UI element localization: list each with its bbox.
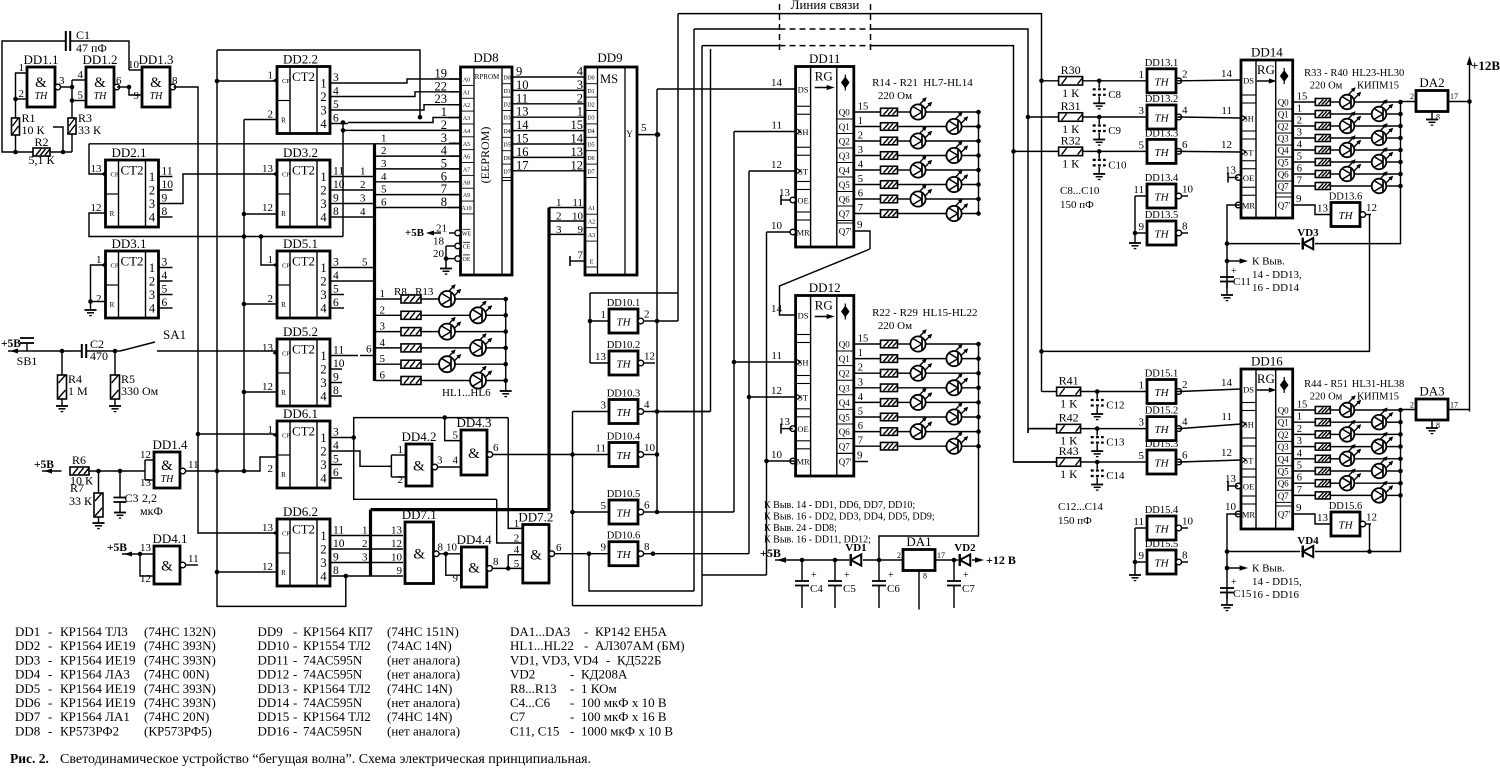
svg-text:(74НС 151N): (74НС 151N) <box>387 624 459 639</box>
wire <box>1293 433 1316 435</box>
svg-text:R: R <box>281 471 286 479</box>
svg-text:13: 13 <box>262 522 274 534</box>
wire <box>898 184 947 186</box>
svg-text:DD15.1: DD15.1 <box>1145 369 1179 380</box>
svg-text:TH: TH <box>616 359 631 371</box>
wire <box>693 29 695 591</box>
wire <box>1228 485 1238 487</box>
svg-text:Светодинамическое устройство “: Светодинамическое устройство “бегущая во… <box>60 752 591 767</box>
svg-text:2: 2 <box>362 538 368 550</box>
svg-text:14: 14 <box>1221 68 1233 80</box>
svg-text:TH: TH <box>161 474 175 485</box>
wire <box>589 554 694 591</box>
svg-text:VD2: VD2 <box>510 667 535 682</box>
wire <box>180 562 186 568</box>
svg-text:13: 13 <box>779 187 791 199</box>
svg-text:Q5: Q5 <box>839 413 850 423</box>
wire <box>898 155 947 157</box>
wire <box>766 232 768 575</box>
wire <box>375 194 461 196</box>
svg-text:4: 4 <box>78 69 84 81</box>
wire <box>962 213 979 215</box>
wire <box>854 387 881 389</box>
svg-text:6: 6 <box>162 297 168 309</box>
counter DD2.2 <box>268 52 331 134</box>
wire <box>71 134 73 152</box>
svg-text:+: + <box>888 570 894 581</box>
wire <box>1386 470 1400 472</box>
svg-text:10: 10 <box>516 78 529 92</box>
wire <box>330 267 344 269</box>
wire <box>217 571 277 573</box>
ground <box>93 522 105 524</box>
wire <box>512 130 585 132</box>
wire <box>145 459 154 461</box>
svg-text:(74НС 00N): (74НС 00N) <box>144 667 209 682</box>
wire <box>1330 409 1339 411</box>
svg-text:+5В: +5В <box>405 227 425 239</box>
wire <box>1354 173 1400 175</box>
LED g3HL2 <box>910 366 925 381</box>
resistor R3 <box>68 111 102 137</box>
svg-text:CP: CP <box>111 263 119 270</box>
wire <box>854 401 881 403</box>
svg-text:9: 9 <box>333 552 339 564</box>
svg-text:TH: TH <box>616 549 631 561</box>
svg-text:Q1: Q1 <box>1278 418 1289 428</box>
svg-text:4: 4 <box>320 472 327 486</box>
svg-text:КР1564 ТЛ2: КР1564 ТЛ2 <box>303 709 371 724</box>
svg-text:10: 10 <box>771 220 783 232</box>
svg-text:TH: TH <box>1154 192 1169 204</box>
svg-text:DD12: DD12 <box>258 667 290 682</box>
ground <box>1431 112 1433 120</box>
wire <box>978 112 980 214</box>
gate DD1.2 <box>82 52 117 107</box>
wire <box>1330 137 1371 139</box>
ground <box>1221 294 1233 296</box>
resistor g3R2 <box>881 369 898 377</box>
wire <box>330 477 342 479</box>
svg-text:D0: D0 <box>587 76 594 82</box>
svg-text:5: 5 <box>858 407 863 418</box>
svg-text:1: 1 <box>380 288 386 300</box>
wire <box>217 50 420 117</box>
svg-text:8: 8 <box>333 385 339 397</box>
wire <box>801 586 803 609</box>
wire <box>33 350 62 352</box>
svg-text:C3: C3 <box>125 491 139 505</box>
wire <box>1293 125 1316 127</box>
wire <box>158 203 160 205</box>
svg-text:мкФ: мкФ <box>140 504 163 518</box>
wire <box>446 258 455 260</box>
wire <box>656 89 658 512</box>
wire <box>918 571 920 610</box>
svg-text:Q7: Q7 <box>839 209 850 219</box>
svg-text:8: 8 <box>923 572 927 581</box>
svg-text:-: - <box>48 667 52 682</box>
svg-text:1: 1 <box>1297 412 1302 423</box>
wire <box>854 213 881 215</box>
svg-text:1: 1 <box>1139 69 1145 81</box>
wire <box>330 307 344 309</box>
svg-text:5: 5 <box>78 90 84 102</box>
svg-text:DD10.4: DD10.4 <box>607 432 641 443</box>
svg-text:-: - <box>48 638 52 653</box>
svg-text:3: 3 <box>1297 128 1302 139</box>
svg-text:К Выв. 14 - DD1, DD6, DD7, DD1: К Выв. 14 - DD1, DD6, DD7, DD10; <box>764 500 915 511</box>
wire <box>1081 428 1147 430</box>
svg-text:3: 3 <box>162 257 168 269</box>
svg-text:4: 4 <box>149 211 156 225</box>
svg-text:TH: TH <box>1338 520 1353 532</box>
svg-text:КД522Б: КД522Б <box>617 652 662 667</box>
svg-text:6: 6 <box>333 467 339 479</box>
svg-text:Q7': Q7' <box>1278 510 1291 520</box>
svg-text:DD2: DD2 <box>15 638 40 653</box>
svg-text:15: 15 <box>858 102 869 113</box>
resistor R11 <box>401 344 421 352</box>
inverter DD13.3 <box>1139 128 1189 163</box>
svg-text:TH: TH <box>1154 458 1169 470</box>
wire <box>449 104 461 106</box>
svg-text:6: 6 <box>1297 164 1302 175</box>
wire <box>1293 161 1316 163</box>
wire <box>854 461 868 463</box>
wire <box>1293 458 1316 460</box>
svg-text:Q4: Q4 <box>1278 146 1289 156</box>
wire <box>749 396 796 398</box>
svg-text:1: 1 <box>268 70 274 82</box>
svg-text:К Выв.: К Выв. <box>1252 256 1285 268</box>
svg-text:DD13.4: DD13.4 <box>1145 173 1179 184</box>
svg-text:DD4: DD4 <box>15 667 41 682</box>
svg-text:3: 3 <box>437 455 443 467</box>
svg-text:1: 1 <box>1297 104 1302 115</box>
svg-text:DD9: DD9 <box>258 624 283 639</box>
counter DD5.2 <box>262 324 330 406</box>
svg-text:+5В: +5В <box>1 338 21 350</box>
svg-text:9: 9 <box>578 224 584 236</box>
diode VD1 <box>851 554 862 565</box>
wire <box>935 559 958 561</box>
svg-text:11: 11 <box>162 166 173 178</box>
svg-text:1: 1 <box>19 62 25 74</box>
svg-text:3: 3 <box>1139 105 1145 117</box>
svg-text:2: 2 <box>96 293 102 305</box>
ground <box>1431 420 1433 428</box>
svg-text:DD5.1: DD5.1 <box>283 236 318 251</box>
svg-text:DD3: DD3 <box>15 652 40 667</box>
wire <box>344 216 375 218</box>
svg-text:DD12: DD12 <box>809 280 841 295</box>
capacitor C13 <box>1096 429 1098 436</box>
LED g2HL2 <box>910 133 925 148</box>
svg-text:Q6: Q6 <box>839 427 850 437</box>
wire <box>449 168 461 170</box>
svg-text:9: 9 <box>1139 221 1145 233</box>
svg-text:13: 13 <box>595 351 607 363</box>
svg-text:10: 10 <box>771 449 783 461</box>
svg-text:11: 11 <box>771 350 782 362</box>
wire <box>573 411 610 413</box>
svg-text:Q7': Q7' <box>839 227 852 237</box>
counter DD3.2 <box>262 145 330 227</box>
svg-text:12: 12 <box>771 159 782 171</box>
wire <box>1354 101 1400 103</box>
svg-text:16: 16 <box>516 145 529 159</box>
wire <box>129 69 142 71</box>
wire <box>854 231 870 249</box>
svg-text:15: 15 <box>516 132 529 146</box>
svg-text:9: 9 <box>333 193 339 205</box>
svg-text:5: 5 <box>858 174 863 185</box>
svg-text:1: 1 <box>320 77 326 91</box>
wire <box>455 363 506 365</box>
wire <box>694 28 780 30</box>
svg-text:C7: C7 <box>510 709 526 724</box>
wire <box>1226 282 1228 295</box>
wire <box>1386 185 1400 187</box>
wire <box>898 140 911 142</box>
svg-text:6: 6 <box>366 344 372 356</box>
wire <box>1083 80 1147 82</box>
svg-text:&: & <box>413 546 425 562</box>
wire <box>1330 113 1371 115</box>
wire <box>1330 482 1339 484</box>
svg-text:6: 6 <box>858 421 863 432</box>
svg-text:R31: R31 <box>1061 99 1081 113</box>
wire <box>53 127 63 152</box>
bus <box>369 510 372 576</box>
wire <box>781 428 793 430</box>
svg-text:220 Ом: 220 Ом <box>878 90 912 102</box>
resistor g4R4 <box>1315 147 1330 154</box>
wire <box>1293 494 1316 496</box>
ground <box>1221 604 1233 606</box>
svg-text:Q5: Q5 <box>839 180 850 190</box>
wire <box>348 105 461 110</box>
svg-text:D5: D5 <box>587 143 594 149</box>
wire <box>90 302 92 311</box>
wire <box>573 605 703 607</box>
LED g4HL3 <box>1372 131 1387 146</box>
svg-text:220 Ом: 220 Ом <box>878 320 912 332</box>
svg-text:CT2: CT2 <box>120 254 143 269</box>
svg-text:4: 4 <box>1297 448 1303 459</box>
resistor R7 <box>69 481 103 517</box>
svg-text:C4: C4 <box>810 583 823 595</box>
power +12V <box>972 559 980 561</box>
svg-text:C12: C12 <box>1106 400 1124 412</box>
power +12V <box>1469 60 1471 412</box>
svg-text:К Выв. 24 - DD8;: К Выв. 24 - DD8; <box>764 523 837 534</box>
wire <box>445 418 461 441</box>
wire <box>86 350 115 352</box>
svg-text:5: 5 <box>362 257 368 269</box>
svg-text:8: 8 <box>172 75 178 87</box>
svg-text:D7: D7 <box>503 169 510 175</box>
counter DD6.1 <box>268 406 331 488</box>
svg-text:3: 3 <box>362 552 368 564</box>
svg-text:12: 12 <box>140 573 151 585</box>
svg-text:C12...C14: C12...C14 <box>1058 501 1103 513</box>
wire <box>375 363 402 365</box>
svg-text:&: & <box>35 75 47 91</box>
regulator DA3 <box>1410 384 1458 431</box>
svg-text:4: 4 <box>333 270 339 282</box>
svg-text:A7: A7 <box>463 167 470 173</box>
svg-text:9: 9 <box>1139 550 1145 562</box>
resistor g3R6 <box>881 428 898 436</box>
svg-text:3: 3 <box>320 288 326 302</box>
svg-text:4: 4 <box>858 392 864 403</box>
svg-text:+5В: +5В <box>107 542 127 554</box>
resistor R43 <box>1057 444 1081 481</box>
svg-text:E: E <box>590 259 594 266</box>
svg-text:13: 13 <box>1317 203 1329 215</box>
svg-text:2: 2 <box>149 275 155 289</box>
svg-text:2: 2 <box>268 463 274 475</box>
svg-text:TH: TH <box>1154 76 1169 88</box>
svg-text:8: 8 <box>333 206 339 218</box>
svg-text:Q5: Q5 <box>1278 158 1289 168</box>
svg-text:2: 2 <box>19 88 25 100</box>
wire <box>573 511 610 513</box>
svg-text:R: R <box>281 117 286 125</box>
svg-text:TH: TH <box>150 91 164 102</box>
svg-text:2: 2 <box>320 275 326 289</box>
wire <box>114 351 116 375</box>
wire <box>854 372 881 374</box>
wire <box>1014 461 1057 463</box>
wire <box>421 380 470 382</box>
wire <box>512 156 585 158</box>
svg-text:(нет аналога): (нет аналога) <box>387 667 460 682</box>
wire <box>330 548 403 550</box>
wire <box>174 87 277 533</box>
svg-text:2: 2 <box>268 109 274 121</box>
svg-text:R: R <box>281 389 286 397</box>
svg-text:9: 9 <box>453 573 459 585</box>
register DD16 <box>1235 354 1292 530</box>
wire <box>962 184 979 186</box>
svg-text:2: 2 <box>556 211 562 223</box>
svg-text:2: 2 <box>268 293 274 305</box>
wire <box>1228 177 1238 179</box>
svg-text:TH: TH <box>1154 558 1169 570</box>
svg-text:DS: DS <box>798 85 809 95</box>
svg-text:R2: R2 <box>34 135 48 149</box>
svg-text:MR: MR <box>796 228 810 238</box>
resistor g4R5 <box>1315 159 1330 166</box>
svg-text:(нет аналога): (нет аналога) <box>387 723 460 738</box>
svg-text:Линия связи: Линия связи <box>791 0 860 12</box>
wire <box>1354 433 1400 435</box>
svg-text:-: - <box>293 681 297 696</box>
svg-text:1: 1 <box>320 529 326 543</box>
wire <box>330 123 348 125</box>
svg-text:11: 11 <box>771 120 782 132</box>
wire <box>1401 101 1417 104</box>
wire <box>898 445 947 447</box>
svg-text:MR: MR <box>1242 510 1256 520</box>
svg-text:100 мкФ х 10 В: 100 мкФ х 10 В <box>581 695 667 710</box>
svg-text:DD15: DD15 <box>258 709 290 724</box>
wire <box>1134 528 1136 562</box>
svg-text:1: 1 <box>858 348 863 359</box>
svg-text:R30: R30 <box>1061 63 1081 77</box>
wire <box>1179 117 1241 118</box>
svg-text:R43: R43 <box>1059 444 1079 458</box>
svg-text:6: 6 <box>116 75 122 87</box>
wire <box>1447 101 1470 103</box>
svg-text:C1: C1 <box>76 28 90 42</box>
LED g2HL0 <box>910 104 925 119</box>
svg-text:Q0: Q0 <box>1278 98 1289 108</box>
ground <box>114 512 126 514</box>
svg-text:Q7: Q7 <box>1278 182 1289 192</box>
bus <box>371 208 550 510</box>
svg-text:4: 4 <box>162 270 168 282</box>
wire <box>767 460 796 462</box>
ground <box>440 268 452 270</box>
svg-text:RG: RG <box>815 69 833 84</box>
LED g2HL7 <box>946 206 961 221</box>
wire <box>549 207 585 209</box>
svg-text:13: 13 <box>571 145 584 159</box>
svg-text:4: 4 <box>333 86 339 98</box>
inverter DD10.2 <box>590 340 655 375</box>
wire <box>767 231 796 233</box>
svg-text:MR: MR <box>796 457 810 467</box>
svg-text:CT2: CT2 <box>120 163 143 178</box>
resistor R1 <box>12 111 46 137</box>
svg-text:9: 9 <box>162 193 168 205</box>
svg-text:3: 3 <box>1297 436 1302 447</box>
svg-text:9: 9 <box>397 565 403 577</box>
wire <box>375 347 402 349</box>
svg-text:DD6: DD6 <box>15 695 41 710</box>
svg-text:TH: TH <box>616 407 631 419</box>
gate DD1.1 <box>23 52 58 107</box>
wire <box>512 170 585 172</box>
svg-text:3: 3 <box>380 321 386 333</box>
svg-text:5: 5 <box>1297 461 1302 472</box>
svg-text:6: 6 <box>333 297 339 309</box>
wire <box>898 387 947 389</box>
inverter DD13.5 <box>1135 210 1188 245</box>
svg-text:Q1: Q1 <box>1278 110 1289 120</box>
resistor g2R7 <box>881 210 898 218</box>
svg-text:13: 13 <box>262 342 274 354</box>
wire <box>375 207 461 209</box>
svg-text:(74НС 393N): (74НС 393N) <box>144 681 216 696</box>
svg-text:2: 2 <box>320 184 326 198</box>
LED g3HL3 <box>946 380 961 395</box>
svg-text:4: 4 <box>320 390 327 404</box>
inverter DD15.1 <box>1139 369 1188 404</box>
wire <box>1386 494 1400 496</box>
svg-text:C7: C7 <box>962 583 975 595</box>
svg-text:12: 12 <box>91 202 102 214</box>
svg-text:-: - <box>293 638 297 653</box>
wire <box>16 98 28 100</box>
svg-text:3: 3 <box>320 458 326 472</box>
gate DD1.3 <box>138 52 173 107</box>
svg-text:-: - <box>584 638 588 653</box>
